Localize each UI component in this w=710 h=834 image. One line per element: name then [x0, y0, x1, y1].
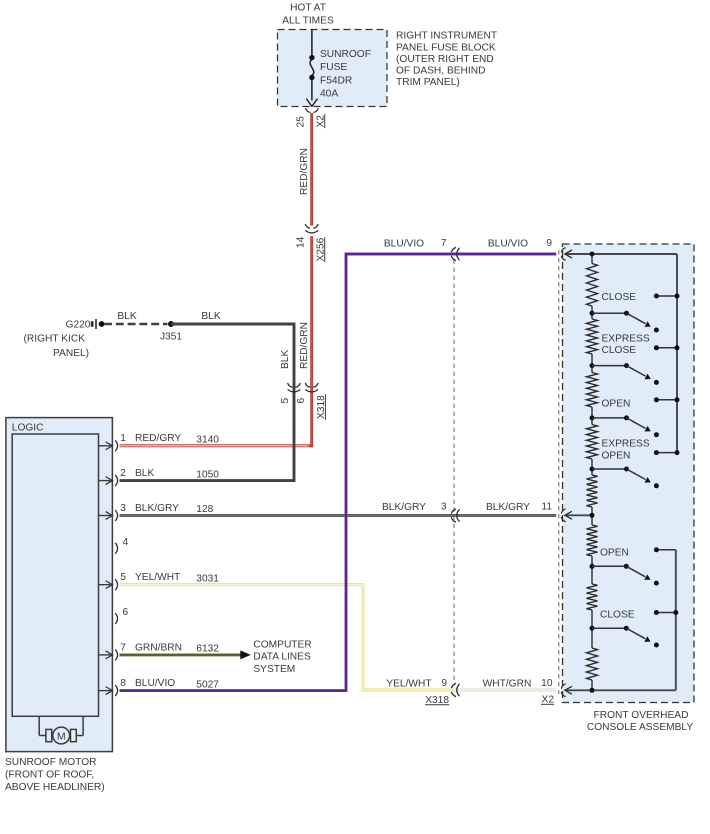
svg-text:RED/GRN: RED/GRN: [299, 148, 310, 195]
wire BLK/GRY 128: pin 3 to console pin 11: [120, 514, 557, 517]
svg-text:4: 4: [123, 537, 129, 548]
svg-text:SYSTEM: SYSTEM: [253, 664, 295, 675]
svg-text:BLU/VIO: BLU/VIO: [488, 239, 528, 250]
svg-text:WHT/GRN: WHT/GRN: [483, 679, 532, 690]
svg-text:BLK/GRY: BLK/GRY: [382, 502, 426, 513]
connector X318 boundary (dashed): [453, 260, 455, 684]
svg-text:9: 9: [546, 238, 552, 249]
connector X2 boundary (dashed): [558, 250, 560, 694]
svg-text:J351: J351: [160, 332, 182, 343]
svg-text:5: 5: [120, 572, 126, 583]
console entry pin 9 (BLU/VIO): [561, 248, 565, 253]
contact: OPEN (lower) to lower rail: [656, 549, 675, 551]
wire YEL/WHT 3031: pin 5 to connector X318 pin 9: [120, 585, 451, 690]
upper contact rail: [676, 254, 678, 453]
svg-text:GRN/BRN: GRN/BRN: [135, 642, 182, 653]
svg-text:2: 2: [120, 468, 126, 479]
svg-text:1: 1: [120, 433, 126, 444]
svg-text:3140: 3140: [196, 435, 219, 446]
logic inner box: [12, 434, 98, 716]
pin 3 of sunroof motor: [99, 515, 112, 517]
node: chain bottom junction (pin 10): [590, 688, 595, 693]
console entry pin 10 (WHT/GRN): [561, 684, 565, 689]
wire WHT/GRN: X318 pin 9 to console pin 10: [452, 689, 556, 692]
switch: OPEN wiper: [590, 415, 595, 420]
svg-text:BLK/GRY: BLK/GRY: [135, 503, 179, 514]
connector X318 pin 7 (inline, BLU/VIO): [451, 247, 456, 252]
lower contact rail: [675, 550, 677, 691]
pin 1 of sunroof motor: [99, 445, 112, 447]
svg-text:ALL TIMES: ALL TIMES: [282, 16, 334, 27]
svg-text:OPEN: OPEN: [602, 451, 631, 462]
resistor R8: [587, 648, 598, 680]
wire RED/GRN: fuse to connector X256: [310, 113, 313, 226]
resistor R6: [587, 525, 598, 556]
svg-text:7: 7: [441, 238, 447, 249]
svg-text:YEL/WHT: YEL/WHT: [386, 679, 431, 690]
resistor R3: [587, 373, 598, 408]
contact pair: EXPRESS OPEN: [656, 452, 677, 454]
wire: resistor chain segments: [591, 254, 593, 264]
console entry pin 11 (BLK/GRY): [561, 509, 565, 514]
svg-text:(FRONT OF ROOF,: (FRONT OF ROOF,: [5, 770, 94, 781]
svg-text:ABOVE HEADLINER): ABOVE HEADLINER): [5, 782, 105, 793]
svg-text:FUSE: FUSE: [320, 62, 347, 73]
resistor R5: [587, 475, 598, 507]
wire RED/GRY 3140: corner to sunroof motor pin 1: [120, 444, 314, 447]
node: chain top junction: [590, 252, 595, 257]
fuse block: right instrument panel fuse block (dashed box): [278, 30, 388, 107]
switch: CLOSE wiper: [590, 311, 595, 316]
resistor R4: [587, 425, 598, 460]
svg-text:6132: 6132: [196, 644, 219, 655]
svg-text:BLK: BLK: [135, 468, 154, 479]
front overhead console assembly box: [563, 244, 695, 703]
contact pair: OPEN: [656, 399, 677, 401]
pin 2 of sunroof motor: [99, 480, 112, 482]
svg-text:BLU/VIO: BLU/VIO: [384, 239, 424, 250]
wire: battery feed inside fuse block: [311, 30, 313, 57]
svg-text:3: 3: [120, 503, 126, 514]
svg-text:(OUTER RIGHT END: (OUTER RIGHT END: [396, 54, 494, 65]
svg-text:6: 6: [123, 607, 129, 618]
switch: CLOSE (lower) wiper: [590, 626, 595, 631]
connector X318 pin 6 (inline on RED/GRN): [305, 383, 310, 387]
svg-text:RIGHT INSTRUMENT: RIGHT INSTRUMENT: [396, 31, 497, 42]
wire BLK: G220 to splice J351 (dashed): [104, 323, 168, 326]
svg-text:(RIGHT KICK: (RIGHT KICK: [24, 333, 86, 344]
svg-text:OPEN: OPEN: [602, 398, 631, 409]
pin 4 of sunroof motor: [115, 543, 117, 554]
wire BLK: J351 to sunroof motor pin 2 (BLK 1050): [120, 324, 295, 481]
connector X318 pin 9 (inline, YEL/WHT to WHT/GRN): [451, 683, 456, 688]
arrow: to computer data lines system: [240, 650, 251, 659]
svg-text:RED/GRN: RED/GRN: [299, 322, 310, 369]
svg-text:DATA LINES: DATA LINES: [253, 652, 311, 663]
svg-text:SUNROOF MOTOR: SUNROOF MOTOR: [5, 757, 97, 768]
node: BLK/GRY tap junction (pin 11): [590, 513, 595, 518]
wire GRN/BRN 6132: pin 7 to data link: [120, 653, 241, 656]
fuse F54DR 40A: [309, 55, 314, 60]
motor M (sunroof motor): [38, 716, 40, 735]
svg-text:BLK/GRY: BLK/GRY: [486, 502, 530, 513]
switch: EXPRESS OPEN wiper: [590, 467, 595, 472]
svg-text:RED/GRY: RED/GRY: [135, 433, 181, 444]
svg-text:9: 9: [441, 678, 447, 689]
svg-text:BLK: BLK: [117, 311, 136, 322]
svg-text:128: 128: [196, 504, 213, 515]
svg-text:PANEL): PANEL): [53, 348, 89, 359]
svg-text:1050: 1050: [196, 469, 219, 480]
svg-text:BLK: BLK: [280, 350, 291, 369]
connector X256 pin 14 (inline): [305, 224, 310, 228]
svg-text:40A: 40A: [320, 89, 338, 100]
svg-text:CLOSE: CLOSE: [600, 610, 635, 621]
svg-text:EXPRESS: EXPRESS: [602, 438, 650, 449]
resistor R7: [587, 584, 598, 610]
contact pair: EXPRESS CLOSE: [656, 347, 677, 349]
svg-text:11: 11: [541, 501, 552, 512]
pin 5 of sunroof motor: [99, 584, 112, 586]
svg-text:8: 8: [120, 678, 126, 689]
svg-text:G220: G220: [66, 320, 91, 331]
svg-text:M: M: [57, 731, 66, 743]
svg-text:LOGIC: LOGIC: [12, 423, 44, 434]
svg-text:5027: 5027: [196, 679, 219, 690]
wire BLU/VIO 5027: pin 8 up and across to console pin 9: [120, 254, 557, 691]
svg-text:14: 14: [296, 236, 307, 248]
wire RED/GRN: X256 down to pin-1 corner: [310, 236, 313, 447]
svg-text:CONSOLE ASSEMBLY: CONSOLE ASSEMBLY: [587, 722, 693, 733]
svg-text:OF DASH, BEHIND: OF DASH, BEHIND: [396, 66, 485, 77]
svg-text:6: 6: [296, 398, 307, 404]
svg-text:5: 5: [280, 398, 291, 404]
wire: console bottom feed to lower rail: [592, 689, 676, 691]
svg-text:BLU/VIO: BLU/VIO: [135, 678, 175, 689]
svg-text:7: 7: [120, 642, 126, 653]
connector X2 pin 25 at fuse block output: [306, 108, 311, 112]
svg-text:SUNROOF: SUNROOF: [320, 49, 371, 60]
svg-text:3031: 3031: [196, 573, 219, 584]
resistor R1: [587, 264, 598, 307]
sunroof motor module box: [6, 418, 113, 752]
svg-text:BLK: BLK: [201, 311, 220, 322]
svg-text:COMPUTER: COMPUTER: [253, 639, 311, 650]
arrow: fuse output at fuse block edge: [306, 99, 317, 107]
switch: EXPRESS CLOSE wiper: [590, 363, 595, 368]
svg-text:3: 3: [441, 501, 447, 512]
svg-text:TRIM PANEL): TRIM PANEL): [396, 77, 460, 88]
svg-text:10: 10: [541, 678, 553, 689]
connector X318 pin 5 (inline on BLK): [288, 383, 293, 387]
svg-text:CLOSE: CLOSE: [602, 345, 637, 356]
pin 7 of sunroof motor: [99, 654, 112, 656]
svg-text:OPEN: OPEN: [600, 548, 629, 559]
svg-text:FRONT OVERHEAD: FRONT OVERHEAD: [594, 710, 689, 721]
contact pair: CLOSE: [656, 295, 677, 297]
svg-text:F54DR: F54DR: [320, 75, 352, 86]
svg-text:YEL/WHT: YEL/WHT: [135, 572, 180, 583]
svg-text:CLOSE: CLOSE: [602, 292, 637, 303]
svg-text:PANEL FUSE BLOCK: PANEL FUSE BLOCK: [396, 42, 496, 53]
wire: console top feed to upper rail: [592, 253, 677, 255]
ground splice G220 symbol: [91, 321, 94, 327]
pin 6 of sunroof motor: [115, 613, 117, 624]
switch: OPEN (lower) wiper: [590, 564, 595, 569]
svg-text:EXPRESS: EXPRESS: [602, 334, 650, 345]
resistor R2: [587, 319, 598, 354]
contact: CLOSE (lower) on rail: [656, 612, 675, 614]
pin 8 of sunroof motor: [99, 690, 112, 692]
svg-text:HOT AT: HOT AT: [290, 3, 326, 14]
svg-text:25: 25: [296, 116, 307, 128]
connector X318 pin 3 (inline, BLK/GRY): [451, 509, 456, 514]
splice J351: [168, 321, 174, 327]
